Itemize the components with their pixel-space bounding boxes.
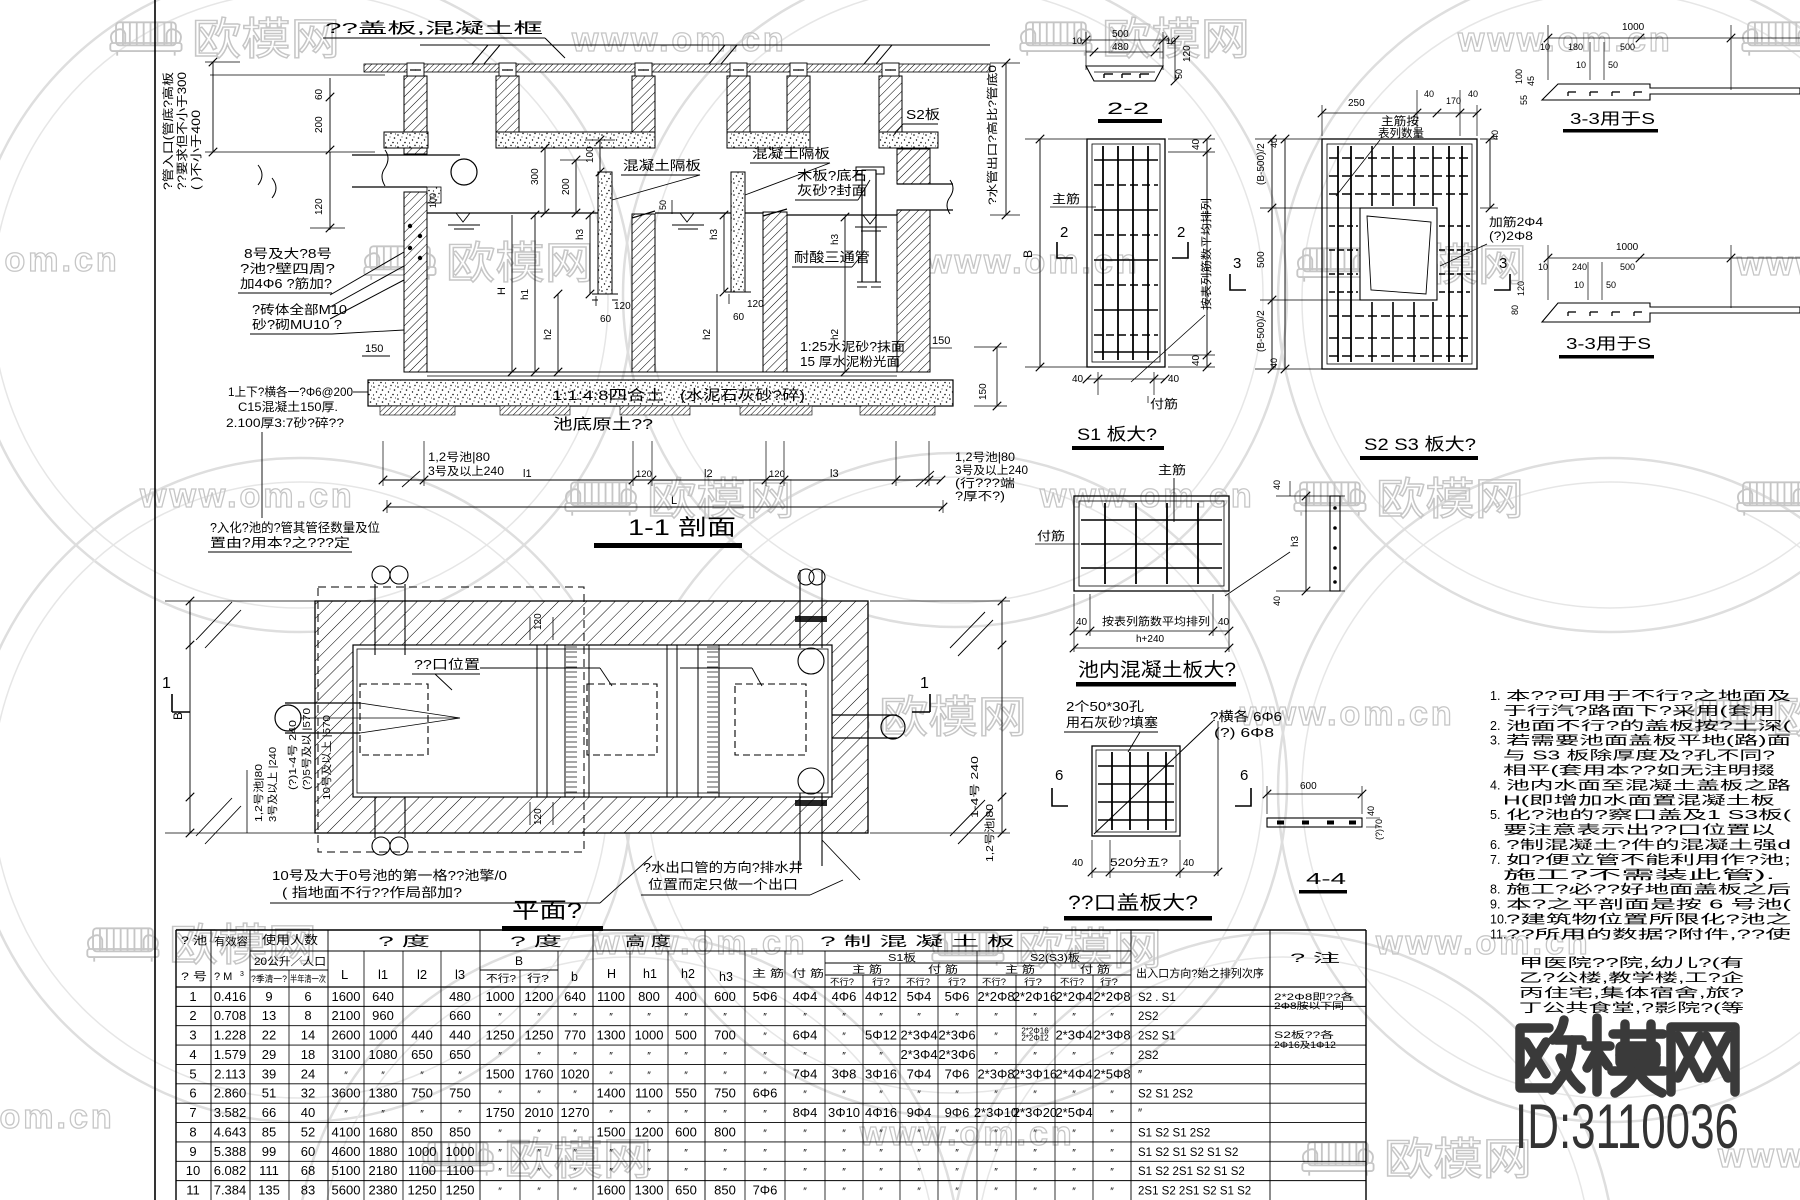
svg-text:S1 S2 S1 2S2: S1 S2 S1 2S2	[1138, 1127, 1210, 1139]
svg-text:120: 120	[533, 613, 544, 630]
svg-text:付筋: 付筋	[1150, 396, 1178, 411]
svg-text:6.: 6.	[1490, 838, 1500, 852]
svg-text:加4Φ6 ?筋加?: 加4Φ6 ?筋加?	[240, 276, 332, 291]
svg-text:??要求但不小于300: ??要求但不小于300	[176, 72, 189, 190]
svg-text:高 度: 高 度	[625, 933, 671, 949]
svg-text:″: ″	[803, 1051, 807, 1062]
svg-text:1,2号池|80: 1,2号池|80	[428, 451, 490, 464]
svg-text:640: 640	[372, 989, 394, 1004]
svg-text:2380: 2380	[369, 1183, 398, 1198]
svg-text:″: ″	[955, 1148, 959, 1159]
svg-text:l3: l3	[830, 468, 839, 480]
svg-text:1-4号 240: 1-4号 240	[969, 756, 981, 818]
svg-text:h3: h3	[830, 233, 841, 245]
svg-text:1,2号池|80: 1,2号池|80	[252, 764, 265, 822]
svg-text:付筋: 付筋	[1037, 528, 1065, 543]
svg-text:″: ″	[842, 1167, 846, 1178]
svg-text:750: 750	[449, 1086, 471, 1101]
svg-text:850: 850	[714, 1183, 736, 1198]
svg-text:不行?: 不行?	[1060, 976, 1084, 987]
svg-text:2*4Φ4: 2*4Φ4	[1055, 1066, 1092, 1081]
svg-text:1300: 1300	[597, 1028, 626, 1043]
svg-text:80: 80	[1510, 305, 1520, 315]
section 1-1: cover frame stub walls (hatched)	[404, 76, 427, 132]
svg-text:1500: 1500	[486, 1066, 515, 1081]
svg-text:120: 120	[769, 469, 785, 480]
svg-text:8Φ4: 8Φ4	[793, 1105, 818, 1120]
svg-text:3: 3	[1233, 255, 1241, 272]
svg-text:″: ″	[647, 1148, 651, 1159]
svg-text:″: ″	[842, 1090, 846, 1101]
svg-text:1020: 1020	[561, 1066, 590, 1081]
svg-text:″: ″	[1072, 1128, 1076, 1139]
svg-text:″: ″	[1110, 1090, 1114, 1101]
svg-text:5.: 5.	[1490, 808, 1500, 822]
svg-text:?厚不?): ?厚不?)	[955, 490, 1005, 503]
svg-text:60: 60	[314, 88, 325, 100]
svg-text:650: 650	[411, 1047, 433, 1062]
svg-text:″: ″	[763, 1051, 767, 1062]
svg-text:″: ″	[573, 1012, 577, 1023]
svg-text:1100: 1100	[635, 1086, 663, 1101]
section 1-1: leader line down from notes	[261, 432, 263, 518]
svg-text:10号及大于0号池的第一格??池擎/0: 10号及大于0号池的第一格??池擎/0	[272, 868, 507, 883]
svg-text:2S2: 2S2	[1138, 1011, 1158, 1023]
svg-text:650: 650	[675, 1183, 697, 1198]
svg-text:″: ″	[381, 1070, 385, 1081]
detail 2-2: dims right 120/50	[1174, 40, 1176, 81]
svg-text:木板?底石: 木板?底石	[797, 168, 867, 183]
svg-text:h2: h2	[702, 328, 713, 340]
svg-text:″: ″	[917, 1167, 921, 1178]
svg-text:500: 500	[1256, 251, 1267, 268]
svg-text:″: ″	[498, 1187, 502, 1198]
svg-text:? 池: ? 池	[181, 934, 207, 947]
svg-text:行?: 行?	[527, 972, 550, 985]
svg-text:l2: l2	[417, 967, 427, 982]
section 1-1: ground hatch band	[364, 64, 990, 72]
svg-text:??盖板,混凝土框: ??盖板,混凝土框	[325, 19, 543, 37]
svg-text:″: ″	[994, 1128, 998, 1139]
svg-text:750: 750	[411, 1086, 433, 1101]
logo 欧模网 big vector glyphs	[1520, 1018, 1735, 1093]
section 1-1: bottom slab (stippled concrete)	[368, 380, 953, 406]
svg-text:4Φ6: 4Φ6	[832, 989, 857, 1004]
svg-text:??所用的数据?附件,??使: ??所用的数据?附件,??使	[1506, 926, 1792, 941]
svg-text:S2 . S1: S2 . S1	[1138, 992, 1176, 1004]
svg-text:置由?用本?之???定: 置由?用本?之???定	[210, 535, 350, 550]
section 1-1: left dimension lines	[212, 62, 214, 152]
section 1-1: h2 dim chamber1	[557, 294, 559, 372]
svg-text:″: ″	[723, 1051, 727, 1062]
svg-text:砂?砌MU10 ?: 砂?砌MU10 ?	[252, 318, 342, 332]
svg-text:″: ″	[684, 1148, 688, 1159]
svg-text:? 制 混 凝 土 板: ? 制 混 凝 土 板	[820, 934, 1016, 949]
svg-text:″: ″	[1033, 1128, 1037, 1139]
detail 2-2: cover slab cross-section	[1086, 66, 1163, 81]
svg-text:2个50*30孔: 2个50*30孔	[1066, 699, 1144, 714]
svg-text:11: 11	[186, 1183, 200, 1198]
svg-text:3号及以上240: 3号及以上240	[955, 464, 1028, 477]
svg-text:″: ″	[1072, 1090, 1076, 1101]
svg-text:5Φ6: 5Φ6	[753, 989, 778, 1004]
svg-text:″: ″	[647, 1167, 651, 1178]
svg-text:100: 100	[1514, 69, 1524, 84]
svg-text:″: ″	[803, 1187, 807, 1198]
svg-text:″: ″	[803, 1090, 807, 1101]
svg-text:″: ″	[537, 1012, 541, 1023]
svg-text:2*3Φ16: 2*3Φ16	[1013, 1066, 1057, 1081]
svg-text:3Φ16: 3Φ16	[865, 1066, 897, 1081]
plan view: vertical pipe top-left (vent) with elbows	[372, 566, 390, 584]
svg-text:4.643: 4.643	[214, 1124, 247, 1139]
svg-text:欧模网: 欧模网	[1384, 1135, 1532, 1184]
svg-text:有效容: 有效容	[214, 934, 248, 948]
svg-text:″: ″	[609, 1167, 613, 1178]
section 1-1: pipe seat block	[427, 187, 441, 203]
svg-text:7.384: 7.384	[214, 1183, 247, 1198]
svg-text:用石灰砂?填塞: 用石灰砂?填塞	[1066, 715, 1158, 730]
svg-text:1:1:4:8四合土: 1:1:4:8四合土	[552, 387, 664, 403]
svg-text:″: ″	[879, 1167, 883, 1178]
svg-text:3100: 3100	[332, 1047, 361, 1062]
svg-text:l1: l1	[523, 468, 532, 480]
svg-text:120: 120	[314, 198, 325, 215]
svg-text:? 注: ? 注	[1290, 950, 1340, 965]
svg-text:″: ″	[955, 1090, 959, 1101]
svg-text:40: 40	[1272, 480, 1282, 490]
svg-text:2*3Φ6: 2*3Φ6	[938, 1028, 975, 1043]
plan view: right corner break marks	[950, 612, 985, 648]
svg-text:″: ″	[381, 1109, 385, 1120]
svg-text:1000: 1000	[369, 1028, 398, 1043]
svg-text:8: 8	[189, 1124, 196, 1139]
svg-text:99: 99	[262, 1144, 276, 1159]
section 1-1: note leader hatch lines to left wall	[330, 252, 404, 295]
svg-text:www.om.cn: www.om.cn	[139, 477, 355, 515]
svg-text:3: 3	[240, 971, 244, 978]
svg-text:2100: 2100	[332, 1008, 361, 1023]
svg-text:500: 500	[1620, 262, 1635, 272]
svg-text:S2板: S2板	[906, 107, 940, 122]
svg-text:10: 10	[1576, 60, 1586, 70]
svg-text:″: ″	[842, 1012, 846, 1023]
svg-text:480: 480	[1112, 42, 1129, 53]
detail manhole cover: right extension line	[1217, 721, 1219, 876]
svg-text:″: ″	[955, 1012, 959, 1023]
svg-text:1680: 1680	[369, 1124, 398, 1139]
svg-text:2*3Φ4: 2*3Φ4	[1055, 1028, 1092, 1043]
svg-text:行?: 行?	[872, 976, 890, 987]
plan view: partition wall 1 (double line)	[536, 645, 538, 797]
svg-text:″: ″	[994, 1032, 998, 1043]
section 1-1: h5/h2 dims chamber3	[844, 217, 846, 372]
svg-text:″: ″	[842, 1187, 846, 1198]
svg-text:化?池的?察口盖及1 S3板(: 化?池的?察口盖及1 S3板(	[1506, 807, 1793, 822]
svg-text:″: ″	[879, 1012, 883, 1023]
svg-text:?入化?池的?管其管径数量及位: ?入化?池的?管其管径数量及位	[210, 520, 380, 535]
svg-text:S2(S3)板: S2(S3)板	[1030, 951, 1081, 964]
svg-text:2: 2	[1060, 224, 1068, 241]
svg-text:″: ″	[842, 1148, 846, 1159]
svg-text:加筋2Φ4: 加筋2Φ4	[1489, 215, 1544, 229]
svg-text:h+240: h+240	[1136, 634, 1165, 645]
section 1-1: tank floor line	[427, 371, 897, 373]
plan view: baffle comb partition 2	[697, 645, 699, 797]
svg-text:1000: 1000	[1622, 22, 1645, 33]
detail S1: bottom dim 40 40	[1087, 378, 1165, 380]
svg-text:40: 40	[1191, 138, 1202, 150]
svg-text:( 指地面不行??作局部加?: ( 指地面不行??作局部加?	[282, 885, 462, 900]
detail 3-3 top: dims	[1548, 37, 1800, 39]
plan view: outer hatched wall rectangle	[315, 601, 868, 833]
svg-text:5100: 5100	[332, 1163, 361, 1178]
svg-text:″: ″	[573, 1148, 577, 1159]
detail pool slab edge bar: dims	[1305, 496, 1307, 591]
svg-text:51: 51	[262, 1086, 276, 1101]
svg-text:200: 200	[561, 178, 572, 195]
svg-text:2*2Φ4: 2*2Φ4	[1055, 989, 1092, 1004]
svg-text:按表列筋数平均排列: 按表列筋数平均排列	[1102, 614, 1210, 628]
svg-text:650: 650	[449, 1047, 471, 1062]
detail pool slab edge bar (h3)	[1330, 496, 1340, 591]
svg-text:2Φ8胺以下同: 2Φ8胺以下同	[1274, 1000, 1344, 1011]
svg-text:100: 100	[428, 193, 438, 208]
svg-text:主 筋: 主 筋	[752, 967, 784, 980]
svg-text:″: ″	[1033, 1148, 1037, 1159]
svg-text:24: 24	[301, 1066, 315, 1081]
svg-text:″: ″	[537, 1128, 541, 1139]
svg-text:″: ″	[917, 1148, 921, 1159]
section 1-1: H dim line	[511, 215, 513, 372]
svg-text:10: 10	[1072, 36, 1082, 46]
svg-text:120: 120	[1182, 45, 1193, 62]
detail S1: outer slab rectangle	[1087, 139, 1165, 367]
svg-text:83: 83	[301, 1183, 315, 1198]
svg-text:0.708: 0.708	[214, 1008, 247, 1023]
svg-text:11.: 11.	[1490, 927, 1506, 941]
svg-text:9Φ4: 9Φ4	[907, 1105, 932, 1120]
svg-text:1400: 1400	[597, 1086, 626, 1101]
svg-text:″: ″	[420, 1070, 424, 1081]
svg-text:1000: 1000	[408, 1144, 437, 1159]
section 1-1: concrete caps under frames (stippled)	[384, 132, 428, 148]
svg-text:″: ″	[994, 1012, 998, 1023]
svg-text:1250: 1250	[525, 1028, 554, 1043]
svg-text:8号及大?8号: 8号及大?8号	[244, 247, 332, 261]
svg-text:甲医院??院,幼儿?(有: 甲医院??院,幼儿?(有	[1519, 956, 1744, 970]
svg-text:4600: 4600	[332, 1144, 361, 1159]
svg-text:?砖体全部M10: ?砖体全部M10	[252, 302, 347, 317]
svg-text:3600: 3600	[332, 1086, 361, 1101]
svg-text:付 筋: 付 筋	[792, 967, 824, 980]
svg-text:″: ″	[803, 1148, 807, 1159]
plan view: dashed region rectangle (first cell cover)	[318, 587, 584, 852]
svg-text:750: 750	[714, 1086, 736, 1101]
svg-text:″: ″	[420, 1109, 424, 1120]
svg-text:3: 3	[189, 1028, 196, 1043]
svg-text:6.082: 6.082	[214, 1163, 247, 1178]
svg-text:″: ″	[684, 1012, 688, 1023]
svg-text:6: 6	[304, 989, 311, 1004]
section 1-1: rebar dots in left wall	[408, 224, 412, 228]
section 1-1: left outer wall (hatched brick)	[404, 148, 427, 154]
svg-text:″: ″	[573, 1128, 577, 1139]
svg-text:2S1 S2 2S1 S2 S1 S2: 2S1 S2 2S1 S2 S1 S2	[1138, 1186, 1251, 1198]
svg-text:(?)1-4号 240: (?)1-4号 240	[287, 720, 299, 790]
svg-text:22: 22	[262, 1028, 276, 1043]
svg-text:60: 60	[301, 1144, 315, 1159]
svg-text:2S2 S1: 2S2 S1	[1138, 1031, 1176, 1043]
svg-text:位置而定只做一个出口: 位置而定只做一个出口	[648, 877, 798, 892]
section 1-1: water line chamber 3	[787, 214, 897, 216]
svg-text:5.388: 5.388	[214, 1144, 247, 1159]
svg-text:7Φ4: 7Φ4	[907, 1066, 932, 1081]
svg-text:欧模网: 欧模网	[1376, 475, 1524, 524]
svg-text:150: 150	[978, 383, 989, 400]
svg-text:施工?不需装此管).: 施工?不需装此管).	[1503, 867, 1775, 882]
svg-text:″: ″	[537, 1148, 541, 1159]
svg-text:″: ″	[955, 1187, 959, 1198]
svg-text:2S2: 2S2	[1138, 1050, 1158, 1062]
svg-text:″: ″	[955, 1128, 959, 1139]
svg-text:如?便立管不能利用作?池;: 如?便立管不能利用作?池;	[1506, 852, 1791, 867]
detail 4-4: slab bar	[1267, 818, 1362, 827]
svg-text:2600: 2600	[332, 1028, 361, 1043]
svg-text:1: 1	[162, 675, 171, 692]
svg-text:乙?公楼,教学楼,工?企: 乙?公楼,教学楼,工?企	[1519, 970, 1745, 985]
svg-text:H: H	[496, 287, 508, 295]
svg-text:″: ″	[1033, 1090, 1037, 1101]
svg-text:″: ″	[573, 1051, 577, 1062]
svg-text:耐酸三通管: 耐酸三通管	[794, 250, 870, 265]
svg-text:10号及以上 |570: 10号及以上 |570	[321, 715, 333, 800]
svg-text:″: ″	[684, 1051, 688, 1062]
svg-text:40: 40	[1269, 358, 1279, 368]
svg-text:?池?壁四周?: ?池?壁四周?	[240, 261, 335, 276]
svg-text:29: 29	[262, 1047, 276, 1062]
svg-text:6: 6	[1240, 767, 1248, 784]
svg-text:60: 60	[600, 314, 612, 325]
svg-text:?管入口(管底?高板: ?管入口(管底?高板	[161, 71, 175, 190]
svg-text:(水泥石灰砂?碎): (水泥石灰砂?碎)	[680, 387, 805, 403]
svg-text:(?)2Φ8: (?)2Φ8	[1489, 231, 1533, 243]
svg-text:600: 600	[1300, 781, 1317, 792]
svg-text:www.om.cn: www.om.cn	[0, 241, 120, 279]
section 1-1: outlet pipe through right wall	[897, 183, 953, 185]
detail S2S3: top dims 250 / 40 170 40	[1322, 112, 1477, 114]
plan view: manhole dashed square 2	[587, 684, 657, 755]
svg-text:2.: 2.	[1490, 719, 1500, 733]
svg-text:″: ″	[498, 1012, 502, 1023]
svg-text:″: ″	[609, 1070, 613, 1081]
svg-text:2*3Φ8: 2*3Φ8	[977, 1066, 1014, 1081]
svg-text:″: ″	[498, 1167, 502, 1178]
svg-text:111: 111	[259, 1163, 279, 1178]
svg-text:2-2: 2-2	[1107, 99, 1149, 118]
svg-text:l3: l3	[455, 967, 465, 982]
svg-text:″: ″	[723, 1070, 727, 1081]
svg-text:B: B	[515, 954, 523, 968]
svg-text:40: 40	[1490, 130, 1500, 140]
svg-text:3-3用于S: 3-3用于S	[1570, 111, 1655, 128]
svg-text:40: 40	[1183, 858, 1195, 869]
svg-text:6: 6	[189, 1086, 196, 1101]
svg-text:″: ″	[1110, 1128, 1114, 1139]
detail pool slab: grid rectangle	[1074, 496, 1229, 591]
plan view: inlet pipe left (horizontal)	[285, 702, 360, 704]
section 1-1: h3 dim chamber2	[723, 215, 725, 292]
plan view: baffle comb partition 1	[564, 645, 566, 797]
svg-text:5Φ6: 5Φ6	[945, 989, 970, 1004]
svg-text:1.: 1.	[1490, 689, 1500, 703]
svg-text:2*3Φ8: 2*3Φ8	[1093, 1028, 1130, 1043]
svg-text:4Φ12: 4Φ12	[865, 989, 897, 1004]
svg-text:10: 10	[1540, 42, 1550, 52]
svg-text:″: ″	[994, 1148, 998, 1159]
svg-text:www.om.cn: www.om.cn	[0, 1098, 115, 1136]
section 1-1: interior dim chain chamber1 300/200/100	[544, 148, 546, 213]
svg-text:850: 850	[449, 1124, 471, 1139]
svg-text:″: ″	[498, 1051, 502, 1062]
svg-text:″: ″	[609, 1148, 613, 1159]
svg-text:S1板: S1板	[888, 951, 917, 964]
svg-text:1: 1	[189, 989, 196, 1004]
svg-text:640: 640	[564, 989, 586, 1004]
svg-text:″: ″	[647, 1051, 651, 1062]
svg-text:68: 68	[301, 1163, 315, 1178]
svg-text:(B-500)/2: (B-500)/2	[1256, 310, 1267, 352]
section 1-1: concrete partition P1 (hanging baffle)	[598, 172, 612, 294]
svg-text:欧模网: 欧模网	[192, 15, 340, 64]
svg-text:45: 45	[1526, 76, 1536, 86]
svg-text:″: ″	[1072, 1187, 1076, 1198]
svg-text:不行?: 不行?	[486, 972, 517, 985]
svg-text:14: 14	[301, 1028, 315, 1043]
svg-text:相平(套用本??如无注明掇: 相平(套用本??如无注明掇	[1503, 763, 1776, 778]
svg-text:480: 480	[449, 989, 471, 1004]
plan view: B dimension line left	[189, 601, 191, 833]
plan view: corner break marks	[196, 602, 232, 640]
svg-text:1250: 1250	[446, 1183, 475, 1198]
svg-text:行?: 行?	[1024, 976, 1042, 987]
svg-text:440: 440	[449, 1028, 471, 1043]
svg-text:??口位置: ??口位置	[414, 657, 480, 672]
svg-text:??口盖板大?: ??口盖板大?	[1068, 892, 1198, 914]
svg-text:2*5Φ4: 2*5Φ4	[1055, 1105, 1092, 1120]
svg-text:www.om.cn: www.om.cn	[859, 1115, 1075, 1153]
svg-text:″: ″	[994, 1167, 998, 1178]
detail 3-3 bottom: dims	[1548, 257, 1800, 259]
svg-text:?建筑物位置所限化?池之: ?建筑物位置所限化?池之	[1506, 912, 1792, 927]
svg-text:500: 500	[675, 1028, 697, 1043]
svg-text:2*2Φ16: 2*2Φ16	[1013, 989, 1057, 1004]
section 1-1: right tall dim ?水管出口高比管底	[1005, 63, 1007, 215]
svg-text:200: 200	[314, 116, 325, 133]
svg-text:1880: 1880	[369, 1144, 398, 1159]
svg-text:″: ″	[955, 1167, 959, 1178]
svg-text:″: ″	[498, 1128, 502, 1139]
svg-text:40: 40	[1072, 858, 1084, 869]
svg-text:250: 250	[1348, 98, 1365, 109]
svg-text:? M: ? M	[214, 971, 232, 983]
svg-text:4-4: 4-4	[1306, 871, 1346, 888]
section 1-1: cover slab slanted joints	[472, 45, 488, 64]
svg-text:40: 40	[1424, 89, 1434, 99]
svg-text:?横各 6Φ6: ?横各 6Φ6	[1210, 709, 1282, 724]
svg-text:″: ″	[803, 1128, 807, 1139]
svg-text:www.om.cn: www.om.cn	[924, 243, 1140, 281]
